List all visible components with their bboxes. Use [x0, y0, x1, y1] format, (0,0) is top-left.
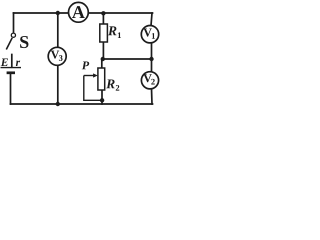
switch S [6, 33, 28, 49]
wiper P arrow [82, 61, 101, 100]
resistor R1 [100, 24, 121, 42]
rheostat R2 [98, 68, 119, 91]
wire R1 branch top [102, 13, 104, 24]
node junction bottom R2 [100, 98, 104, 102]
wire R2 to bottom rail [101, 90, 103, 104]
wire top rail [14, 12, 153, 14]
voltmeter V1 [141, 26, 158, 43]
ammeter A [69, 2, 89, 22]
wire V2 to bottom rail [151, 89, 154, 104]
wire left rail upper [13, 13, 15, 33]
wire middle branch upper [57, 13, 59, 48]
node junction R1-R2 [101, 57, 105, 61]
wire middle branch lower [57, 65, 59, 104]
node junction bottom middle [56, 102, 60, 106]
node junction top middle [56, 11, 60, 15]
wire node to R2 [101, 59, 103, 68]
wire switch to battery [11, 55, 13, 68]
wire V1 to V2 [151, 43, 153, 72]
node junction top R1 [101, 11, 105, 15]
wire right rail top to V1 [151, 13, 152, 26]
wire battery to bottom rail [10, 74, 12, 105]
wire R1 to node [102, 42, 104, 59]
voltmeter V3 [48, 47, 66, 65]
wire bottom rail [11, 103, 153, 105]
voltmeter V2 [141, 72, 158, 89]
wire tie node to right rail [103, 58, 152, 60]
battery E r [1, 58, 22, 72]
node junction right rail [149, 57, 153, 61]
